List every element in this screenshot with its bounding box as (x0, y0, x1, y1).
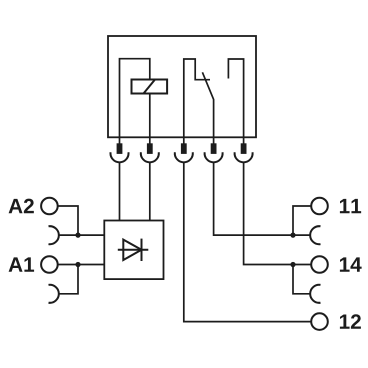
terminal pin 5 wire (243, 137, 245, 145)
terminal pin 2 wire (149, 137, 151, 145)
wire 14 socket elbow (293, 265, 310, 294)
label 11 (340, 199, 361, 213)
junction dot A2 node (75, 233, 80, 238)
terminal socket 3 (175, 152, 193, 162)
terminal pin 5 (241, 143, 247, 154)
terminal A1 circle (41, 256, 58, 273)
input module box (104, 221, 163, 280)
terminal pin 1 (117, 143, 123, 154)
terminal socket 5 (235, 152, 253, 162)
wire A2 node to input box (59, 234, 105, 236)
terminal socket 2 (141, 152, 159, 162)
relay coil (132, 80, 168, 94)
terminal 11 circle (311, 198, 328, 215)
diode V1 triangle (123, 240, 141, 260)
terminal 14 circle (311, 256, 328, 273)
diode V1 axis wire (118, 249, 149, 251)
terminal socket 4 (205, 152, 223, 162)
coil diagonal (144, 80, 156, 94)
label 12 (340, 314, 361, 329)
wire terminal 4 to node 11 (214, 162, 311, 235)
diode V1 cathode bar (141, 239, 143, 261)
label A1 (9, 257, 34, 271)
terminal pin 2 (147, 143, 153, 154)
junction dot A1 node (75, 262, 80, 267)
terminal socket 1 (111, 152, 129, 162)
terminal pin 4 wire (213, 137, 215, 145)
bridge socket under A1 (49, 285, 59, 303)
NO fixed contact wire (to terminal 5) (228, 59, 243, 137)
terminal pin 3 (181, 143, 187, 154)
wire terminal 5 to contact 14 (244, 162, 312, 264)
wire A1 socket elbow (59, 265, 78, 294)
terminal A2 circle (41, 198, 58, 215)
wire terminal 3 to contact 12 (184, 162, 311, 321)
terminal 12 circle (311, 313, 328, 330)
terminal pin 3 wire (183, 137, 185, 145)
relay module box (108, 36, 256, 137)
bridge socket under A2 (49, 226, 59, 244)
terminal pin 1 wire (119, 137, 121, 145)
wire A2 to node (58, 206, 78, 235)
wire terminal 2 to diode box (149, 162, 151, 220)
wire terminal 1 to diode box (119, 162, 121, 220)
label A2 (9, 199, 34, 214)
NC fixed contact wire (to terminal 3) (184, 59, 210, 137)
bridge socket under 11 (310, 226, 320, 244)
terminal pin 4 (211, 143, 217, 154)
contact arm (common, to terminal 4) (202, 72, 213, 137)
label 14 (340, 257, 362, 271)
junction dot 11 node (290, 233, 295, 238)
wire A1 to input box (58, 264, 105, 266)
bridge socket under 14 (310, 285, 320, 303)
wire 11 elbow to node (293, 206, 311, 235)
coil loop wire (120, 59, 150, 138)
junction dot 14 node (290, 262, 295, 267)
